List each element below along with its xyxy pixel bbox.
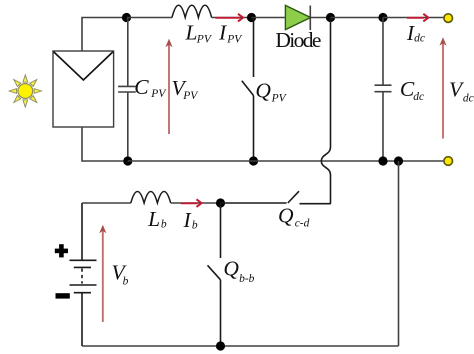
battery + sign [55,244,68,257]
terminal: DC+ [444,14,453,23]
svg-text:Diode: Diode [275,28,321,52]
svg-text:C: C [134,75,149,99]
wire: inductor to node [171,202,221,204]
wire: PV top to top rail [82,18,126,52]
wire: top rail to inductor [127,17,173,19]
battery V_b [70,203,97,346]
current arrow I_dc [407,14,428,22]
wire: node to C_dc node [331,17,384,19]
wire: PV bottom to mid rail [82,127,127,161]
svg-text:b: b [123,276,129,288]
node: top rail / crossover wire [326,13,335,22]
wire: right drop to bottom rail [398,161,400,346]
voltage arrow V_PV [165,39,172,134]
capacitor C_PV [118,18,136,162]
voltage arrow V_dc [439,37,446,138]
svg-text:dc: dc [414,33,425,45]
node: mid rail / C_PV bottom [123,156,132,165]
wire: node to diode anode [252,17,286,19]
inductor L_PV [172,5,212,17]
svg-text:PV: PV [271,93,288,105]
svg-text:c-d: c-d [295,218,310,230]
inductor L_b [131,192,171,204]
svg-text:PV: PV [196,33,213,45]
node: top rail / C_PV top [122,13,131,22]
current arrow I_b [181,199,202,207]
PV panel [53,51,114,127]
wire: mid rail [128,160,444,162]
svg-text:Q: Q [255,79,271,103]
node: mid rail / C_dc bottom [378,156,387,165]
svg-text:b: b [192,219,198,231]
node: Q_PV / mid rail [249,156,258,165]
svg-text:Q: Q [223,257,239,281]
svg-text:Q: Q [278,203,294,227]
voltage arrow V_b [99,225,106,322]
crossover wire: top node to Q_c-d (hops mid rail) [321,18,331,204]
node: L_b / Q_b-b / Q_c-d [216,198,225,207]
current arrow I_PV [216,14,244,22]
capacitor C_dc [375,18,392,162]
wire: battery to inductor [82,202,131,204]
node: top rail / C_dc top [378,13,387,22]
wire: diode cathode to node [311,17,331,19]
svg-text:L: L [185,21,198,45]
diode [285,5,310,30]
node: mid rail / right drop [394,156,403,165]
wire: bottom rail [82,345,399,347]
switch Q_PV [242,18,254,162]
svg-text:PV: PV [182,90,199,102]
wire: node to + terminal [383,17,444,19]
svg-text:PV: PV [150,88,167,100]
node: top rail / Q_PV [247,13,256,22]
svg-text:b-b: b-b [239,273,255,285]
switch Q_c-d [221,191,331,204]
svg-text:PV: PV [226,33,243,45]
svg-text:b: b [161,218,167,230]
svg-text:I: I [218,21,227,45]
svg-text:L: L [147,207,160,231]
terminal: DC- [444,157,453,166]
battery - sign [56,293,70,298]
svg-text:I: I [183,208,192,232]
wire: inductor to node [212,17,251,19]
svg-text:dc: dc [413,91,424,103]
svg-text:dc: dc [463,93,474,105]
node: bottom rail / Q_b-b [216,341,225,350]
sun [9,75,41,107]
switch Q_b-b [208,203,221,346]
